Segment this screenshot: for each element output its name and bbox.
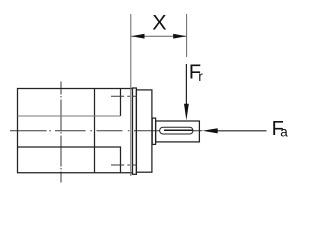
dimension arrow right: [173, 34, 186, 39]
bolt hole centerline bottom: [111, 164, 137, 166]
extension line right: [186, 14, 188, 57]
end cap: [136, 90, 152, 172]
motor body: [18, 89, 133, 173]
dimension arrow left: [131, 34, 144, 39]
vertical centerline: [60, 82, 62, 183]
label Fr: [189, 62, 203, 85]
flange ring: [133, 88, 137, 174]
extension line left: [130, 14, 132, 176]
label X: [152, 11, 166, 35]
force Fa arrow: [202, 128, 266, 133]
bolt hole centerline top: [111, 95, 137, 97]
svg-text:X: X: [152, 11, 166, 35]
body seam line upper: [18, 115, 121, 117]
dimension line X: [131, 35, 187, 37]
svg-text:a: a: [280, 125, 288, 140]
svg-text:r: r: [198, 69, 203, 84]
horizontal centerline: [10, 130, 202, 132]
shaft collar: [152, 118, 155, 144]
label Fa: [272, 118, 289, 140]
shaft: [156, 121, 200, 142]
keyway: [160, 127, 193, 134]
force Fr arrow: [184, 64, 189, 120]
